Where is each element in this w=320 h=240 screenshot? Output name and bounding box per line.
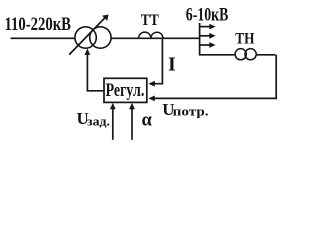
svg-text:ТТ: ТТ: [141, 12, 160, 29]
svg-text:ТН: ТН: [235, 31, 254, 48]
svg-text:110-220кВ: 110-220кВ: [5, 14, 72, 35]
svg-text:α: α: [142, 111, 153, 131]
svg-text:I: I: [168, 53, 176, 75]
svg-text:6-10кВ: 6-10кВ: [186, 5, 229, 26]
svg-text:потр.: потр.: [173, 104, 209, 119]
svg-text:Регул.: Регул.: [106, 81, 145, 101]
svg-text:зад.: зад.: [87, 113, 110, 128]
